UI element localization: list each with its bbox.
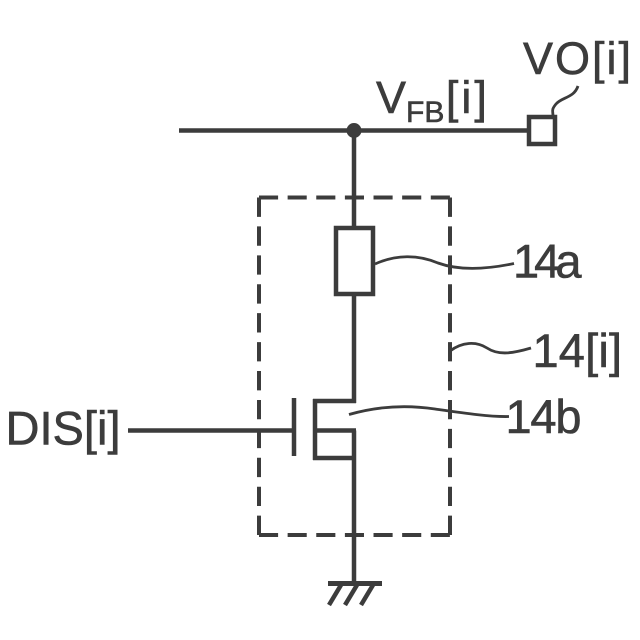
transistor 14b channel bar (313, 399, 318, 460)
leader wire to label 14a (375, 257, 514, 269)
ground bar (328, 581, 382, 586)
svg-text:14a: 14a (513, 235, 582, 288)
wire: top horizontal net VFB (179, 128, 527, 133)
terminal square VO[i] (529, 117, 555, 144)
node: junction dot on VFB net (347, 123, 362, 138)
dashed box 14[i] bottom edge (259, 533, 450, 537)
leader wire to label 14[i] (450, 343, 531, 353)
ground hatch slash 2 (345, 585, 357, 605)
svg-text:VO[i]: VO[i] (523, 33, 631, 84)
leader wire to label 14b (349, 407, 509, 417)
resistor 14a (rectangle body) (336, 228, 373, 294)
leader wire to label VO[i] (553, 86, 578, 116)
transistor 14b source stub (313, 456, 356, 461)
svg-text:14[i]: 14[i] (533, 324, 623, 377)
ground hatch slash 1 (329, 585, 341, 605)
wire: transistor source/body down to ground (352, 431, 357, 586)
svg-text:VFB[i]: VFB[i] (376, 72, 490, 129)
dashed box 14[i] right edge (448, 198, 452, 536)
dashed box 14[i] left edge (257, 198, 261, 536)
transistor 14b gate bar (292, 398, 297, 456)
transistor 14b body stub (313, 428, 356, 433)
transistor 14b drain stub (313, 399, 356, 404)
svg-text:DIS[i]: DIS[i] (6, 402, 121, 455)
wire: resistor 14a bottom to transistor 14b drain (352, 294, 357, 403)
svg-text:14b: 14b (506, 390, 582, 443)
dashed box 14[i] top edge (259, 196, 450, 200)
ground hatch slash 3 (361, 585, 373, 605)
transistor 14b gate lead wire from DIS[i] (128, 428, 294, 433)
wire: junction down to resistor 14a top (352, 131, 357, 229)
